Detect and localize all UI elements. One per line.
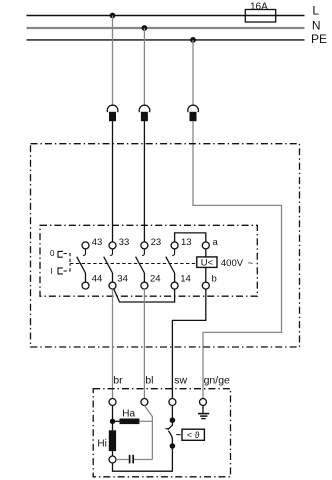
plug X1 (L) <box>107 105 118 121</box>
PE bus line <box>27 39 305 41</box>
wire node to Hi <box>112 421 114 430</box>
wire N plug to contact 23 <box>143 121 145 242</box>
plug X2 (N) <box>139 105 150 121</box>
junction on PE <box>190 37 196 43</box>
wire br terminal to node <box>112 406 114 422</box>
terminal sw <box>169 399 176 406</box>
ground symbol <box>198 406 209 419</box>
wire PE drop to plug <box>192 40 194 106</box>
contact 13/14 <box>166 242 178 289</box>
L bus line <box>27 15 305 17</box>
svg-text:24: 24 <box>150 273 161 284</box>
heater element Hi <box>109 430 116 451</box>
svg-text:U<: U< <box>201 258 214 269</box>
svg-text:br: br <box>113 375 123 387</box>
svg-text:14: 14 <box>180 273 191 284</box>
bridge wire 13 to a <box>175 233 206 242</box>
contact 43/44 <box>77 242 89 289</box>
node sw top <box>170 417 176 423</box>
junction on N <box>142 25 148 31</box>
dashed link to thermostat <box>176 434 180 436</box>
node sw bottom <box>170 443 176 449</box>
svg-text:gn/ge: gn/ge <box>204 375 230 387</box>
wire capacitor to bl branch <box>134 459 152 461</box>
terminal a <box>202 242 209 249</box>
wire U< coil to b <box>205 267 207 282</box>
wire Ha to bl branch <box>139 420 152 422</box>
svg-text:sw: sw <box>174 375 187 387</box>
fuse F1 16A <box>245 1 275 22</box>
wire 34 to br <box>112 289 114 399</box>
wire a to U< coil <box>205 249 207 257</box>
terminal b <box>202 282 209 289</box>
terminal bl <box>141 399 148 406</box>
inner dash-dot box (switch block) <box>40 225 257 296</box>
thermostat box < theta <box>182 429 204 440</box>
svg-text:44: 44 <box>92 273 103 284</box>
thermal contact <box>165 420 172 446</box>
svg-text:34: 34 <box>117 273 128 284</box>
svg-text:Ha: Ha <box>122 409 135 420</box>
svg-text:PE: PE <box>311 32 327 46</box>
plug X3 (PE) <box>188 105 199 121</box>
svg-text:400V ~: 400V ~ <box>221 258 254 269</box>
terminal gn/ge <box>200 399 207 406</box>
svg-text:Hi: Hi <box>97 439 106 450</box>
outer dash-dot box (control unit) <box>31 144 300 347</box>
wire L drop to plug <box>112 16 114 107</box>
wire b to sw <box>172 289 205 399</box>
svg-text:33: 33 <box>119 237 130 248</box>
actuator bracket top <box>58 251 63 257</box>
wire sw bottom loop to Hi <box>113 449 173 472</box>
node junction br/Ha/Hi <box>110 419 115 424</box>
wire PE plug routing to gn/ge <box>193 121 282 399</box>
svg-text:0: 0 <box>50 249 55 258</box>
undervoltage release U< <box>197 257 217 269</box>
bottom dash-dot box (heater unit) <box>93 389 230 477</box>
bridge wire 34 to 14 <box>114 288 175 302</box>
wire sw terminal to thermal contact <box>171 406 173 421</box>
svg-text:16A: 16A <box>250 1 268 12</box>
wire terminal to capacitor <box>116 459 129 461</box>
svg-text:a: a <box>213 237 219 248</box>
svg-text:N: N <box>312 18 321 32</box>
capacitor C1 <box>130 455 134 464</box>
wire L plug to contact 33 <box>112 121 114 242</box>
wire 24 to bl <box>143 289 145 399</box>
svg-text:13: 13 <box>181 237 192 248</box>
internal terminal <box>109 456 116 463</box>
heater element Ha <box>120 419 140 425</box>
contact 33/34 <box>104 242 116 289</box>
terminal br <box>109 399 116 406</box>
contact 23/24 <box>136 242 148 289</box>
wire node to Ha <box>113 420 120 422</box>
svg-text:< ϑ: < ϑ <box>187 430 200 440</box>
svg-text:23: 23 <box>151 237 162 248</box>
actuator bracket bottom <box>58 268 63 274</box>
mechanical coupling dashed line <box>70 263 197 265</box>
N bus line <box>27 27 305 29</box>
svg-text:I: I <box>50 267 52 276</box>
actuator dashed links <box>64 254 71 272</box>
svg-text:bl: bl <box>145 375 153 387</box>
svg-text:b: b <box>212 273 217 284</box>
wire N drop to plug <box>143 28 145 106</box>
junction on L <box>110 13 116 19</box>
wire Hi to internal terminal <box>112 451 114 456</box>
svg-text:L: L <box>312 4 319 18</box>
svg-text:43: 43 <box>92 237 103 248</box>
wire bl branch down <box>144 406 152 460</box>
